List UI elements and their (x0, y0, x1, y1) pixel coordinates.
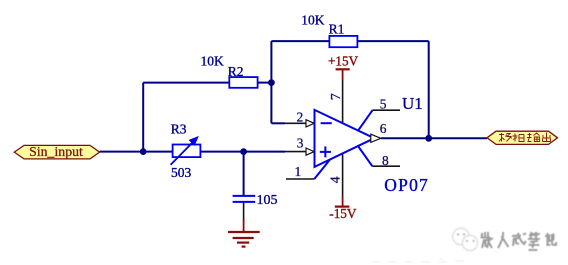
svg-text:Sin_input: Sin_input (29, 144, 83, 159)
svg-text:+15V: +15V (328, 54, 359, 69)
svg-text:105: 105 (257, 193, 278, 208)
svg-text:-15V: -15V (329, 206, 357, 221)
svg-text:4: 4 (327, 176, 342, 183)
svg-text:5: 5 (380, 97, 387, 112)
svg-text:U1: U1 (402, 94, 423, 113)
svg-text:OP07: OP07 (384, 175, 429, 195)
svg-text:503: 503 (171, 165, 192, 180)
svg-text:10K: 10K (301, 12, 325, 27)
svg-text:1: 1 (295, 164, 302, 179)
svg-text:R1: R1 (329, 22, 345, 37)
svg-text:7: 7 (329, 93, 344, 100)
svg-text:3: 3 (297, 135, 304, 150)
svg-text:2: 2 (297, 109, 304, 124)
svg-text:8: 8 (382, 153, 389, 168)
svg-text:R3: R3 (171, 121, 187, 136)
svg-text:6: 6 (380, 121, 387, 136)
svg-text:R2: R2 (228, 64, 244, 79)
svg-text:10K: 10K (201, 54, 225, 69)
